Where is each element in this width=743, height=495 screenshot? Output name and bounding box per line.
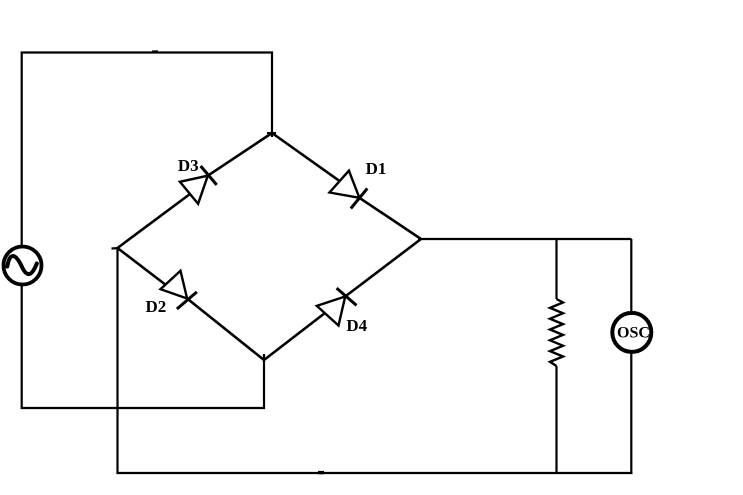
- diode D3: [180, 166, 217, 204]
- AC source V1: [4, 247, 42, 285]
- svg-text:D4: D4: [346, 316, 367, 335]
- wire: cathode side of D1 to right node: [359, 198, 421, 239]
- wire: left node down to bottom rail, across bottom rail: [118, 248, 633, 473]
- wire: right rail down to oscilloscope: [630, 239, 632, 313]
- wire: bridge edge left-to-bottom, anode side of D2: [118, 248, 166, 285]
- wire: resistor top lead: [555, 239, 557, 299]
- wire: oscilloscope bottom to bottom rail: [630, 352, 632, 473]
- wire: right node to right rail: [418, 238, 632, 240]
- wire: bridge edge top-to-right, anode side of D1: [272, 133, 340, 181]
- svg-text:D3: D3: [178, 156, 199, 175]
- diode D2: [161, 271, 197, 309]
- wire: bridge edge left-to-top, anode side of D3: [118, 194, 191, 248]
- wire joint nub on bottom rail: [318, 471, 324, 474]
- resistor R (load): [550, 239, 563, 473]
- wire: cathode side of D2 to bottom node: [187, 299, 264, 361]
- diode D4: [317, 288, 357, 325]
- wire: AC source bottom terminal down, right, up to bottom node: [22, 285, 264, 409]
- oscilloscope OSC: [612, 313, 651, 352]
- wire: bridge edge, cathode side of D3 to top node: [208, 133, 272, 176]
- node T (bridge top junction): [267, 132, 276, 134]
- wire joint nub on top rail: [152, 50, 158, 53]
- svg-text:D2: D2: [146, 297, 167, 316]
- wire: AC source top terminal up, across top rail, down to top node: [22, 53, 272, 247]
- diode D1: [330, 171, 368, 209]
- wire: cathode side of D4 to right node: [345, 239, 421, 297]
- wire: resistor bottom lead: [555, 366, 557, 473]
- resistor zigzag body: [550, 299, 563, 366]
- svg-text:D1: D1: [366, 159, 387, 178]
- node B (bridge bottom junction): [263, 354, 265, 362]
- svg-text:OSC: OSC: [617, 325, 650, 342]
- node L (bridge left junction): [112, 247, 120, 250]
- wire: bridge edge bottom-to-right, anode side of D4: [264, 313, 325, 360]
